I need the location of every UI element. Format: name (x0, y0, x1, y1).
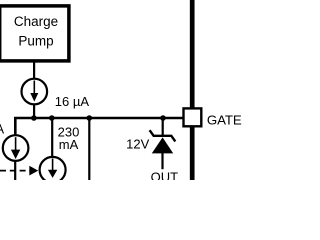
svg-text:A: A (0, 121, 4, 136)
svg-text:GATE: GATE (207, 112, 242, 127)
svg-text:12V: 12V (126, 137, 149, 152)
svg-text:mA: mA (59, 137, 79, 152)
svg-text:16 µA: 16 µA (55, 94, 90, 109)
svg-text:OUT: OUT (151, 170, 179, 180)
svg-text:Pump: Pump (18, 33, 53, 48)
svg-text:Charge: Charge (14, 14, 58, 29)
